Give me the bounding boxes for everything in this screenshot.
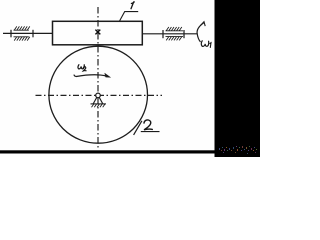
leader for label 2: [134, 121, 142, 135]
horizontal centerline: [36, 94, 163, 96]
leader for label 1: [120, 12, 139, 21]
label 1: [131, 2, 134, 9]
label omega2: [78, 65, 84, 69]
right guide end tick B: [183, 30, 185, 38]
omega1 arrowhead: [200, 22, 205, 26]
black scan band right: [215, 0, 261, 157]
pivot ground hatching: [92, 104, 106, 107]
label 2: [144, 120, 152, 130]
x contact mark: [95, 30, 100, 35]
wire: right rod segment: [142, 33, 197, 35]
black scan line bottom: [0, 150, 260, 153]
follower block 1 (rectangle): [53, 21, 143, 45]
omega2 arrowhead: [105, 73, 111, 77]
right guide lower rail: [166, 37, 184, 41]
left guide upper rail: [14, 26, 30, 30]
pivot journal circle: [96, 93, 101, 98]
caption speckle text bottom-right: [219, 146, 257, 154]
left guide lower rail: [14, 37, 30, 41]
omega2 subscript 2: [83, 67, 86, 71]
label 2 underline: [141, 131, 160, 133]
left guide end tick B: [32, 30, 34, 38]
right guide upper rail: [166, 27, 184, 31]
omega1 subscript 1: [210, 43, 211, 48]
omega1 rotation arrow arc: [197, 23, 204, 42]
omega2 rotation arrow: [74, 75, 106, 77]
left guide end tick A: [10, 30, 12, 38]
wire: left rod segment: [3, 32, 53, 34]
vertical centerline: [97, 7, 99, 150]
pivot ground line: [91, 103, 107, 105]
label omega1: [201, 41, 208, 47]
right guide end tick A: [162, 30, 164, 38]
disc 2 (circle): [49, 46, 148, 143]
pivot triangle: [93, 97, 103, 104]
